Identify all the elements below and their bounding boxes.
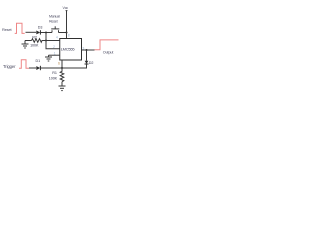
wire pin 4 <box>46 40 60 42</box>
svg-text:3: 3 <box>82 46 84 50</box>
resistor R2 <box>32 39 47 43</box>
wire R1 to ground <box>61 82 63 86</box>
wire output node down to D2 <box>86 50 88 61</box>
output pulse waveform <box>95 40 119 50</box>
wire reset pulse to D3 <box>26 31 37 33</box>
svg-text:D1: D1 <box>36 59 41 63</box>
resistor R1 <box>60 68 64 82</box>
diode D2 <box>85 61 89 64</box>
wire pin 1 <box>49 54 60 56</box>
wire bus to pin 2 <box>46 41 60 49</box>
svg-text:LMC555: LMC555 <box>61 47 76 52</box>
wire pin1 down <box>48 55 50 57</box>
svg-text:4: 4 <box>56 35 58 39</box>
svg-text:Vcc: Vcc <box>63 6 69 10</box>
wire switch to Vcc node <box>59 32 67 34</box>
node junction Vcc/pin8 <box>66 32 68 34</box>
wire D2 down and left to trigger line <box>62 64 87 68</box>
diode D1 <box>36 66 40 70</box>
node junction output/D2 <box>86 49 88 51</box>
trigger input pulse waveform <box>19 60 29 68</box>
svg-text:2: 2 <box>53 45 55 49</box>
svg-text:Trigger: Trigger <box>3 64 16 69</box>
node junction reset/R2 bus <box>45 32 47 34</box>
wire R2 left down <box>24 41 26 45</box>
svg-text:D2: D2 <box>89 61 94 65</box>
wire gnd to R2 <box>25 40 32 42</box>
svg-text:D3: D3 <box>38 25 43 29</box>
wire bus junction down to pin4 <box>45 33 47 41</box>
wire pin 3 output <box>82 49 95 51</box>
wire IC bottom pin to trigger line <box>61 60 63 68</box>
ground for R1 <box>59 85 66 87</box>
svg-text:8: 8 <box>68 33 70 37</box>
wire Vcc down <box>66 10 68 12</box>
background <box>0 0 120 98</box>
switch S1 manual reset pushbutton <box>51 30 53 32</box>
svg-text:Output: Output <box>103 51 115 55</box>
svg-text:R1: R1 <box>52 71 57 75</box>
wire D3 to switch <box>41 32 53 34</box>
ground for R2 <box>22 43 29 45</box>
wire trigger pulse to D1 <box>29 67 36 69</box>
svg-text:Manual: Manual <box>49 14 60 18</box>
ground for pin 1 <box>45 56 52 58</box>
svg-text:1: 1 <box>54 51 56 55</box>
svg-text:Reset: Reset <box>49 19 58 23</box>
svg-text:100K: 100K <box>30 44 39 48</box>
op-amp U1 LMC555 timer IC box <box>60 39 82 61</box>
node junction trigger/R1 <box>61 67 63 69</box>
svg-text:Reset: Reset <box>2 27 12 32</box>
wire D1 to R1 junction <box>41 67 63 69</box>
reset input pulse waveform <box>15 23 25 33</box>
diode D3 <box>36 31 40 35</box>
svg-text:100K: 100K <box>49 77 58 81</box>
svg-text:6: 6 <box>58 61 60 65</box>
node junction pin4/R2 <box>45 40 47 42</box>
wire node to pin 8 <box>66 33 68 39</box>
